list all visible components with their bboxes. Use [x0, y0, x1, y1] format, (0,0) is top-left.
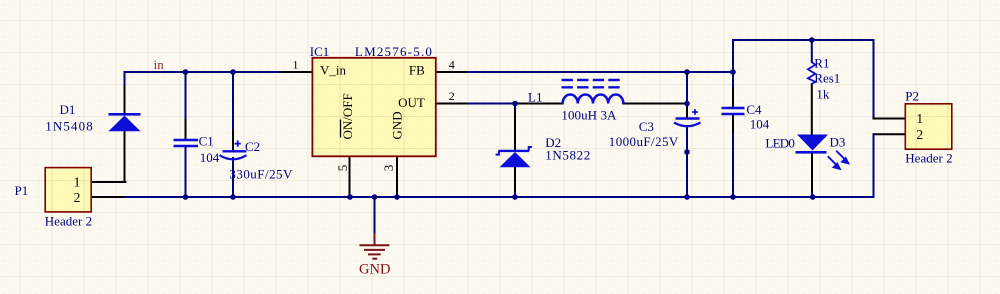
- svg-text:D3: D3: [830, 135, 846, 150]
- junction: OUT net / D2: [512, 101, 518, 107]
- wire: C2 column lower: [232, 158, 234, 197]
- svg-text:104: 104: [750, 116, 770, 131]
- wire: ground rail stub down to GND symbol: [374, 197, 376, 234]
- connector P1 body: [45, 168, 91, 212]
- svg-text:3: 3: [381, 165, 396, 172]
- junction: in net / C2: [230, 69, 236, 75]
- svg-text:2: 2: [916, 127, 923, 142]
- junction: ground rail / C2: [230, 194, 236, 200]
- wire: right vertical from top rail to P2 pin 1: [873, 40, 875, 119]
- wire: 'in' net top rail from D1 corner to IC1 pin 1: [125, 71, 282, 73]
- svg-text:P1: P1: [15, 183, 29, 198]
- inductor L1 core dashes: [562, 80, 621, 87]
- wire: C4 column lower: [732, 134, 734, 197]
- wire: OUT net from IC1 pin 2 to D2 junction: [468, 103, 516, 105]
- connector P2 body: [905, 104, 952, 149]
- wire: D2 column bottom: [514, 193, 516, 197]
- wire: FB net from IC1 pin 4 to output rail: [468, 71, 733, 73]
- junction: C3 column mid: [684, 149, 690, 155]
- regulator IC U1/IC1 LM2576-5.0 body: [312, 58, 435, 157]
- svg-text:1: 1: [293, 57, 299, 71]
- svg-text:in: in: [154, 57, 165, 72]
- svg-text:1: 1: [74, 175, 81, 190]
- pin: C1 top pin: [185, 120, 187, 140]
- svg-text:OUT: OUT: [398, 95, 425, 110]
- wire: C1 column upper: [185, 72, 187, 120]
- junction: FB net / C4 column: [730, 69, 736, 75]
- svg-text:GND: GND: [390, 111, 405, 139]
- junction: in net / C1: [183, 69, 189, 75]
- junction: OUT net / C3 top: [684, 101, 690, 107]
- pin: C3 positive pin: [686, 106, 688, 118]
- svg-text:C2: C2: [245, 139, 260, 154]
- pin: D1 anode pin down to P1 pin1 wire: [124, 131, 126, 182]
- junction: top rail / R1: [809, 37, 815, 43]
- pin: IC1 pin 1 V_in stub: [280, 71, 312, 73]
- svg-text:D1: D1: [60, 102, 76, 117]
- svg-text:Res1: Res1: [814, 71, 840, 86]
- svg-text:LM2576-5.0: LM2576-5.0: [355, 44, 432, 59]
- inductor L1 winding: [563, 94, 624, 103]
- wire: LED column bottom: [811, 193, 813, 197]
- svg-text:Header 2: Header 2: [905, 151, 952, 166]
- pin: C2 positive pin: [232, 131, 234, 151]
- pin: IC1 pin 5 ON/OFF stub: [349, 156, 351, 196]
- junction: ground rail / LED column: [810, 194, 816, 200]
- svg-text:V_in: V_in: [320, 62, 347, 77]
- wire: vertical from 'in' rail down to D1 cathode: [124, 72, 126, 86]
- svg-text:330uF/25V: 330uF/25V: [229, 166, 293, 181]
- svg-text:ON/OFF: ON/OFF: [340, 93, 355, 139]
- pin: D2 cathode pin: [514, 110, 516, 150]
- ground symbol: [359, 234, 389, 259]
- svg-text:4: 4: [449, 57, 455, 71]
- svg-text:C3: C3: [639, 119, 654, 134]
- resistor R1: [808, 62, 815, 84]
- pin: L1 left pin: [516, 103, 563, 105]
- wire: right vertical from P2 pin 2 to ground rail: [873, 134, 875, 197]
- svg-text:1000uF/25V: 1000uF/25V: [609, 134, 679, 149]
- pin: L1 right pin: [623, 103, 684, 105]
- svg-text:IC1: IC1: [310, 44, 330, 59]
- junction: ground rail / IC1 pin 5: [347, 194, 353, 200]
- pin: D1 cathode pin: [124, 86, 126, 114]
- svg-text:104: 104: [200, 150, 220, 165]
- pin: D3 cathode pin: [811, 153, 813, 193]
- svg-text:LED0: LED0: [765, 135, 795, 150]
- svg-text:100uH 3A: 100uH 3A: [561, 108, 617, 123]
- junction: FB net / C3: [684, 69, 690, 75]
- capacitor C4: [722, 108, 745, 114]
- LED D3 emission arrows: [828, 151, 849, 169]
- junction: ground rail / IC1 pin 3: [394, 194, 400, 200]
- svg-text:GND: GND: [359, 262, 390, 278]
- pin: P1 pin 1 stub: [91, 181, 125, 183]
- overline bar of ON/OFF pin name: [340, 120, 342, 138]
- svg-text:R1: R1: [814, 55, 829, 70]
- wire: C2 column upper: [232, 72, 234, 131]
- pin: IC1 pin 2 OUT stub: [436, 103, 469, 105]
- wire: C4 column upper: [732, 40, 734, 88]
- pin: R1 bottom pin to LED anode: [811, 84, 813, 135]
- svg-text:FB: FB: [409, 62, 425, 77]
- junction: ground rail / GND stub: [372, 194, 378, 200]
- pin: P2 pin 2 stub: [874, 133, 906, 135]
- wire: bottom ground rail: [125, 196, 874, 198]
- svg-text:1k: 1k: [816, 86, 830, 101]
- svg-text:2: 2: [74, 190, 81, 205]
- pin: IC1 pin 3 GND stub: [396, 156, 398, 196]
- capacitor C2 (electrolytic, with plus mark): [220, 141, 247, 160]
- pin: C4 bottom pin: [732, 115, 734, 135]
- schottky diode D2: [496, 147, 532, 167]
- capacitor C1: [174, 140, 199, 146]
- svg-text:1N5822: 1N5822: [545, 148, 590, 163]
- svg-text:5: 5: [335, 165, 350, 172]
- wire: C1 column lower: [185, 146, 187, 197]
- pin: C4 top pin: [732, 88, 734, 108]
- pin: P1 pin 2 stub: [91, 196, 126, 198]
- capacitor C3 (electrolytic, with plus mark): [674, 109, 701, 126]
- wire: C3 column from FB rail: [686, 72, 688, 106]
- pin: IC1 pin 4 FB stub: [436, 71, 469, 73]
- wire: L1 to C3 junction: [684, 103, 687, 105]
- svg-text:1N5408: 1N5408: [45, 119, 93, 134]
- pin: P2 pin 1 stub: [874, 118, 906, 120]
- svg-text:L1: L1: [528, 90, 542, 105]
- junction: ground rail / D2: [512, 194, 518, 200]
- svg-text:P2: P2: [905, 89, 919, 104]
- junction: ground rail / C3: [684, 194, 690, 200]
- svg-text:2: 2: [449, 89, 455, 103]
- wire: output top rail: [733, 39, 874, 41]
- LED D3 body: [796, 135, 829, 154]
- diode D1: [109, 113, 141, 131]
- junction: ground rail / C1: [183, 194, 189, 200]
- junction: ground rail / C4: [730, 194, 736, 200]
- svg-text:C4: C4: [746, 102, 762, 117]
- svg-text:1: 1: [916, 111, 923, 126]
- svg-text:Header 2: Header 2: [45, 214, 92, 229]
- wire: top rail down to R1: [811, 40, 813, 62]
- pin: D2 anode pin: [514, 167, 516, 193]
- wire: D2 column top: [514, 104, 516, 111]
- wire: C3 column lower: [686, 126, 688, 197]
- svg-text:C1: C1: [199, 133, 214, 148]
